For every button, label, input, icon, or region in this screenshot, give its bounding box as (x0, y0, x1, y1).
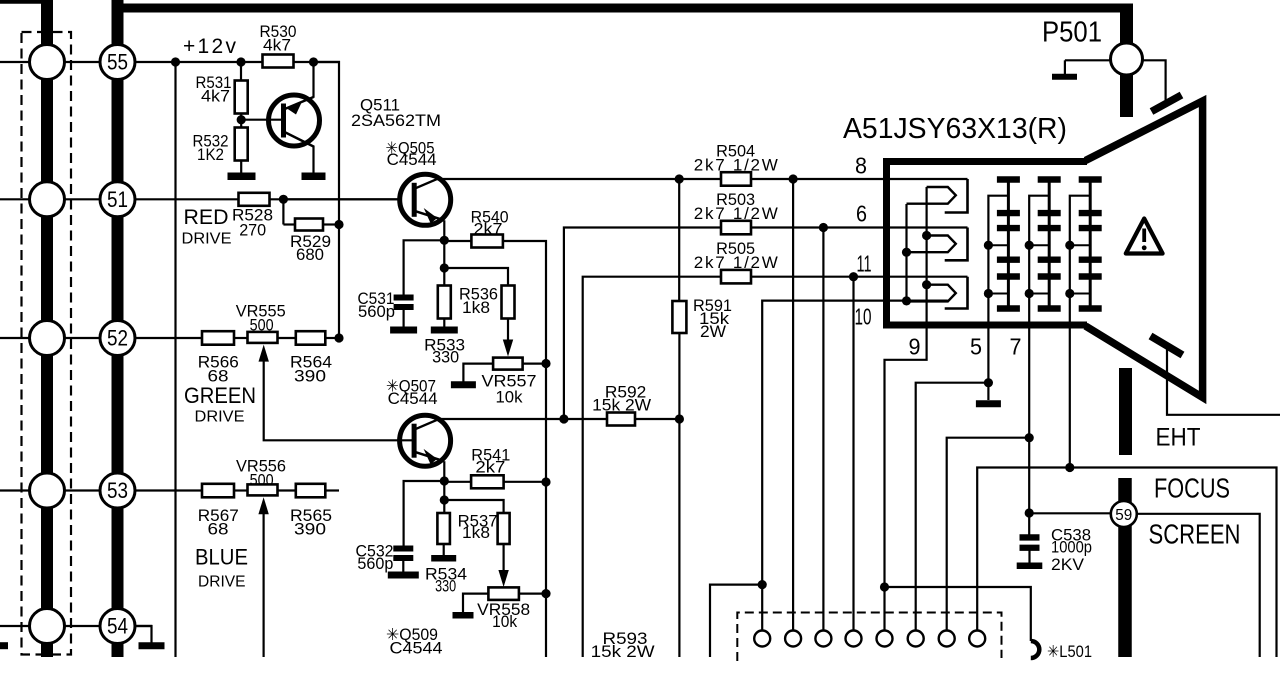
wire row 53 horizontal (0, 489, 204, 491)
wire pin10 rail to connector (761, 585, 763, 631)
svg-text:68: 68 (208, 521, 229, 539)
svg-text:A51JSY63X13(R): A51JSY63X13(R) (843, 113, 1067, 145)
junction pin10 rail branch (758, 580, 767, 589)
transistor Q511 (PNP 2SA562TM) (269, 95, 320, 146)
svg-text:68: 68 (208, 368, 229, 386)
resistor R541 (444, 481, 471, 483)
node circle on bus 1 (row 55) (30, 45, 65, 80)
wire C531 to ground (403, 308, 405, 327)
svg-text:2k7: 2k7 (474, 220, 503, 238)
wire R533 to ground (443, 318, 445, 327)
svg-text:4k7: 4k7 (201, 88, 230, 106)
wire screen-grid rail (1028, 331, 1030, 536)
resistor R530 (263, 55, 294, 68)
junction screen branch (1025, 433, 1034, 442)
heavy bar above EHT (1119, 368, 1132, 455)
svg-text:SCREEN: SCREEN (1149, 518, 1241, 549)
junction emitter node 2 (443, 240, 445, 268)
wire Q511 emitter to +12v (312, 62, 314, 98)
svg-text:330: 330 (432, 348, 459, 366)
wiper arrow VR556 to Q509 base (258, 497, 268, 514)
junction pin11 row drop (849, 272, 858, 281)
wire R567-VR556 (234, 489, 248, 491)
node circle on bus 1 (row 51) (30, 182, 65, 217)
svg-text:15k 2W: 15k 2W (591, 643, 655, 661)
wire pin5 branch to connector (916, 383, 989, 631)
heavy bar focus/screen (1118, 478, 1132, 657)
svg-text:330: 330 (435, 577, 456, 595)
bus bar 1 (heavy vertical) (41, 0, 53, 657)
svg-text:BLUE: BLUE (195, 545, 248, 570)
svg-text:390: 390 (294, 521, 326, 539)
wire R534 to ground (443, 544, 445, 556)
junction green row to bias chain (325, 337, 339, 339)
ground pin5 (976, 400, 1001, 407)
wire row 52 horizontal (0, 337, 204, 339)
svg-text:10k: 10k (496, 389, 524, 407)
svg-text:1k8: 1k8 (462, 299, 490, 317)
wire pin 10 row (762, 301, 948, 585)
svg-text:54: 54 (107, 614, 128, 639)
svg-text:4k7: 4k7 (263, 37, 291, 55)
wire VR558 right junction (519, 592, 546, 594)
svg-text:C4544: C4544 (390, 639, 443, 657)
svg-text:DRIVE: DRIVE (198, 574, 246, 591)
wire R528 node to Q505 base (283, 198, 414, 200)
wire VR557 right junction (523, 363, 547, 365)
ground stub bottom-left edge (0, 642, 8, 649)
wire pin8 drop to connector (792, 179, 794, 631)
resistor R565 (296, 484, 326, 498)
node circle on bus 1 (row 54) (30, 609, 65, 644)
resistor R528 (239, 193, 270, 206)
wire heavy top rail (112, 4, 1134, 13)
junction emitter node (440, 236, 449, 245)
resistor R505 (721, 270, 751, 284)
svg-text:1000p: 1000p (1051, 539, 1092, 557)
wire R537 wiper arrow to VR558 (503, 544, 505, 583)
svg-text:P501: P501 (1042, 17, 1102, 49)
junction screen node (1025, 508, 1034, 517)
resistor R533 (443, 268, 445, 287)
node 53 (100, 473, 135, 508)
wire pin11 drop to connector (852, 277, 854, 631)
svg-text:55: 55 (107, 50, 128, 75)
transistor Q505 (NPN C4544) (400, 174, 451, 225)
CRT grid column 2 (pin 7 / screen) (1048, 180, 1051, 310)
node 55 (100, 45, 135, 80)
svg-text:DRIVE: DRIVE (182, 230, 232, 247)
wire R536 wiper arrow to VR557 (507, 318, 509, 352)
coil L501 (1031, 641, 1040, 658)
junction R541 right (541, 477, 550, 486)
wire Q507 emitter down (443, 461, 445, 481)
junction pin8 row to R591 (675, 174, 684, 183)
wire branch left down (710, 585, 762, 657)
connector pin circles (754, 631, 770, 647)
svg-text:680: 680 (296, 246, 324, 264)
wire R591 to R592 row (678, 333, 680, 657)
resistor R536 (502, 286, 515, 319)
wire row 54 horizontal (0, 625, 152, 627)
CRT funnel outline (1086, 101, 1203, 398)
svg-text:✳L501: ✳L501 (1047, 643, 1092, 661)
CRT anode tick (1151, 336, 1183, 355)
preset VR556 (248, 484, 278, 495)
warning triangle (1126, 219, 1163, 254)
CRT top cap tick (1152, 95, 1182, 112)
wire R532 to ground (240, 161, 242, 174)
dashed enclosure around bus bar 1 (22, 32, 72, 655)
wire R566-VR555 (234, 337, 248, 339)
wire VR558 left to ground (463, 594, 489, 613)
ground below Q511 (302, 173, 326, 181)
svg-text:10k: 10k (492, 613, 518, 631)
wire to L501 (885, 587, 1031, 641)
preset VR558 (488, 587, 519, 600)
junction gun3 feed (922, 280, 931, 289)
svg-text:FOCUS: FOCUS (1154, 472, 1230, 503)
junction gun2 feed (922, 231, 931, 240)
wire emitter node left to C531 (404, 240, 445, 296)
node 51 (100, 182, 135, 217)
svg-text:2k7 1/2W: 2k7 1/2W (694, 155, 778, 174)
wire pin6 drop to connector (822, 228, 824, 631)
CRT gun 2 (green cathode, pin 6) (945, 228, 968, 261)
svg-text:11: 11 (857, 251, 872, 277)
svg-text:51: 51 (107, 187, 128, 212)
CRT socket box left edge (883, 158, 890, 329)
CRT gun 3 (blue cathode, pin 11) (945, 277, 968, 309)
svg-text:15k 2W: 15k 2W (592, 397, 651, 415)
svg-text:2k7 1/2W: 2k7 1/2W (694, 204, 778, 223)
wire Q505 collector to pin8 row (439, 177, 441, 180)
svg-text:53: 53 (107, 478, 128, 503)
wire down to R529 (282, 199, 284, 224)
svg-text:7: 7 (1010, 334, 1022, 360)
svg-text:270: 270 (239, 222, 266, 240)
svg-text:2k7 1/2W: 2k7 1/2W (694, 253, 778, 272)
transistor Q507 (NPN C4544) (400, 415, 451, 466)
resistor R591 (678, 179, 680, 302)
ground below R532 (228, 173, 256, 181)
junction G1 gun2 (902, 248, 911, 257)
junction pin6 row drop (819, 223, 828, 232)
resistor R531 (240, 62, 242, 82)
svg-text:2SA562TM: 2SA562TM (351, 112, 441, 130)
wire branch to connector (947, 438, 1029, 631)
capacitor C532 (393, 546, 413, 552)
wire top-left edge bar (0, 0, 53, 4)
junction +12v node (236, 57, 245, 66)
junction R528 right (279, 195, 288, 204)
wire C532 to ground (402, 559, 404, 572)
svg-text:560p: 560p (357, 555, 393, 573)
node 54 (100, 609, 135, 644)
wire VR555-R564 (278, 337, 296, 339)
CRT socket box bottom edge (883, 322, 1087, 329)
wire focus line (977, 468, 1276, 658)
wire emitter node left to C532 (404, 481, 445, 547)
svg-text:1K2: 1K2 (197, 146, 224, 164)
resistor R504 (721, 172, 751, 186)
wire pin 6 row (564, 228, 968, 419)
CRT socket box top edge (883, 158, 1087, 165)
resistor R592 (607, 413, 635, 426)
svg-text:9: 9 (909, 334, 921, 360)
wire P501 right to CRT cap (1143, 60, 1166, 101)
resistor R537 (498, 513, 510, 544)
wire +12v feed to bias chain (314, 62, 340, 338)
wire blue row end to bias chain bottom (325, 489, 339, 491)
wire focus-grid rail (1069, 331, 1071, 468)
wiper arrow VR555 to Q507 base (259, 345, 269, 362)
svg-text:10: 10 (855, 304, 872, 330)
capacitor C538 (1020, 534, 1040, 540)
svg-text:5: 5 (970, 334, 982, 360)
resistor R534 (443, 500, 445, 514)
svg-text:DRIVE: DRIVE (195, 409, 245, 426)
junction pin8 row drop (789, 174, 798, 183)
node circle on bus 1 (row 53) (30, 473, 65, 508)
svg-text:560p: 560p (358, 303, 395, 321)
svg-text:6: 6 (856, 201, 867, 227)
svg-text:2W: 2W (700, 323, 726, 341)
preset VR555 (248, 332, 278, 343)
bus bar 2 (heavy vertical with numbered nodes) (112, 0, 124, 657)
svg-text:52: 52 (107, 326, 128, 351)
resistor R564 (296, 331, 326, 345)
wire VR557 left to ground (463, 364, 493, 382)
CRT grid column 1 (pin 5) (1007, 180, 1010, 310)
resistor R567 (202, 484, 234, 498)
svg-text:390: 390 (294, 368, 326, 386)
wire pin5 rail to ground (987, 331, 989, 400)
ground after node 54 (135, 626, 152, 643)
wire R540 right down the feedback rail (503, 241, 546, 657)
resistor R540 (444, 240, 471, 242)
wire Q505 emitter down (443, 220, 445, 240)
node 52 (100, 321, 135, 356)
wire R592 row (439, 418, 680, 420)
node 59 (1111, 501, 1137, 527)
wire to R536 (444, 268, 508, 287)
wire +12v rail down left (174, 62, 176, 657)
svg-text:500: 500 (250, 471, 274, 489)
wire row 51 horizontal (0, 198, 415, 200)
node P501 (1111, 43, 1143, 75)
P501 heavy stem (1120, 8, 1133, 117)
svg-text:GREEN: GREEN (184, 383, 256, 408)
wire grid rail G1 (905, 204, 907, 301)
svg-text:2KV: 2KV (1051, 556, 1084, 574)
junction R529 right on bias chain (323, 223, 339, 225)
capacitor C531 (394, 295, 414, 301)
node circle on bus 1 (row 52) (30, 321, 65, 356)
junction R592 right (675, 414, 684, 423)
dashed connector box (737, 613, 1001, 662)
wire Q511 collector to ground (312, 146, 314, 174)
svg-text:59: 59 (1115, 507, 1132, 524)
svg-text:2k7: 2k7 (475, 458, 505, 476)
resistor R529 (295, 219, 323, 231)
resistor R503 (721, 221, 751, 235)
junction G1 gun3 (902, 296, 911, 305)
junction Q511 base node (237, 115, 246, 124)
wire cathode feed rail (pin 9) (885, 187, 927, 631)
svg-text:C4544: C4544 (387, 151, 437, 169)
junction cathode rail branch to L501 (880, 582, 889, 591)
wire pin 11 row (583, 277, 968, 657)
wire P501 left to ground (1065, 59, 1111, 61)
wire to R537 (444, 500, 503, 514)
wire Q507 collector to R592 row (439, 419, 441, 421)
junction pin6 rail end on R592 row (559, 414, 568, 423)
junction Q507 emitter node 2 (443, 481, 445, 500)
CRT grid column 3 (focus) (1089, 180, 1092, 310)
junction pin5 node (984, 378, 993, 387)
wire C538 to ground (1028, 551, 1030, 565)
resistor R532 (235, 128, 248, 161)
svg-text:500: 500 (250, 317, 274, 335)
svg-text:EHT: EHT (1156, 423, 1201, 451)
wire screen line (1029, 512, 1111, 514)
junction focus feed (1065, 463, 1074, 472)
wire EHT lead (1167, 348, 1280, 415)
preset VR557 (493, 358, 522, 370)
CRT gun 1 (red cathode, pin 8) (945, 179, 968, 213)
wire VR556-R565 (278, 489, 296, 491)
wire pin 8 row (437, 178, 968, 180)
wire row 55 horizontal (0, 61, 340, 63)
svg-text:C4544: C4544 (388, 390, 438, 408)
resistor R566 (202, 331, 234, 345)
junction R530 right (309, 57, 318, 66)
svg-text:8: 8 (855, 153, 867, 179)
svg-text:1k8: 1k8 (462, 524, 490, 542)
svg-text:RED: RED (184, 205, 229, 229)
junction Q507 emitter node (440, 476, 449, 485)
